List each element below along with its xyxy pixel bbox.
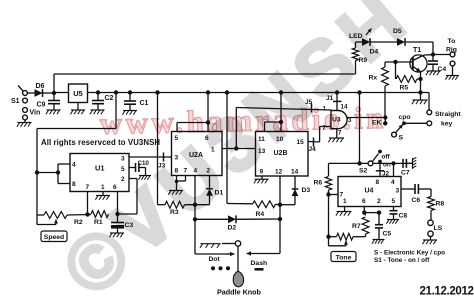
note S1 function bbox=[374, 257, 430, 264]
wire U1 pin2 jog bbox=[129, 179, 137, 215]
wire R2 to R1 node bbox=[67, 212, 91, 216]
svg-text:www.hamradio.in: www.hamradio.in bbox=[99, 100, 387, 141]
resistor R7 bbox=[352, 213, 369, 237]
wire bus to U2A pins 5-6 bbox=[177, 90, 210, 131]
wire bus rail through pin1 row bbox=[225, 90, 253, 204]
svg-text:Rig: Rig bbox=[446, 47, 457, 54]
diode D2 bbox=[195, 215, 280, 231]
svg-text:Dot: Dot bbox=[209, 256, 221, 263]
svg-text:Dash: Dash bbox=[251, 260, 268, 267]
terminal LS tip bbox=[428, 220, 443, 232]
resistor R9 bbox=[352, 42, 367, 74]
svg-text:cpo: cpo bbox=[399, 114, 411, 121]
label Tone bbox=[331, 252, 356, 262]
svg-text:LS: LS bbox=[434, 225, 443, 232]
resistor R4 bbox=[253, 201, 276, 218]
wire D6 to node bbox=[43, 92, 55, 94]
wire U3 out to EK bbox=[347, 118, 385, 120]
svg-text:S: S bbox=[399, 135, 404, 142]
svg-text:D6: D6 bbox=[36, 83, 45, 90]
ground under C9 bbox=[46, 110, 61, 114]
svg-text:S - Electronic Key / cpo: S - Electronic Key / cpo bbox=[374, 250, 445, 257]
text all rights bbox=[41, 138, 160, 147]
svg-text:T1: T1 bbox=[413, 47, 421, 54]
label Dot bbox=[209, 256, 231, 270]
regulator U5 bbox=[69, 84, 88, 103]
diode D3 bbox=[280, 176, 310, 205]
wire emitter down bbox=[418, 72, 422, 95]
wire U2A pin1 to U2B pin13 bbox=[222, 146, 256, 150]
LED D4 bbox=[349, 29, 378, 56]
resistor R5 bbox=[396, 62, 423, 92]
gate U3 bbox=[323, 104, 353, 137]
diode D5 bbox=[393, 28, 405, 46]
ground under C10 bbox=[138, 176, 151, 180]
svg-text:C5: C5 bbox=[383, 231, 392, 238]
svg-text:S2: S2 bbox=[359, 168, 368, 175]
IC U1 bbox=[70, 154, 129, 192]
svg-text:S1 - Tone - on / off: S1 - Tone - on / off bbox=[374, 257, 430, 264]
resistor R3 bbox=[158, 201, 185, 216]
capacitor C9 bbox=[37, 93, 61, 110]
svg-text:6: 6 bbox=[362, 198, 366, 205]
wire C6 to R8 bbox=[418, 189, 431, 197]
terminal straight key tip bbox=[427, 110, 462, 128]
potentiometer tone bbox=[329, 233, 354, 240]
wire S1 to D6 bbox=[28, 92, 35, 94]
capacitor C5 bbox=[375, 213, 391, 239]
wiper of tone pot bbox=[329, 237, 349, 246]
svg-text:8: 8 bbox=[72, 181, 76, 188]
wire pin4 rail down bbox=[193, 205, 229, 254]
switch S lever bbox=[395, 114, 410, 133]
svg-text:U4: U4 bbox=[365, 188, 374, 195]
svg-text:12: 12 bbox=[275, 169, 283, 176]
wire R4 to node bbox=[276, 203, 281, 205]
IC U2B bbox=[256, 132, 309, 177]
wire collector to rig jack bbox=[433, 54, 450, 56]
ground on bus right bbox=[412, 93, 428, 105]
capacitor C1 bbox=[124, 90, 149, 110]
node R1 C3 bbox=[115, 212, 119, 216]
wire D4 to D5 bbox=[370, 41, 397, 43]
svg-text:4: 4 bbox=[391, 179, 395, 186]
svg-text:S1: S1 bbox=[11, 98, 20, 105]
ground under U2A bbox=[168, 191, 183, 195]
svg-text:U1: U1 bbox=[95, 164, 105, 173]
capacitor C3 electrolytic bbox=[111, 214, 133, 233]
wire J4 up to U3 pin2 bbox=[320, 127, 331, 143]
svg-text:C8: C8 bbox=[399, 213, 408, 220]
svg-text:3: 3 bbox=[396, 188, 400, 195]
paddle pivot bbox=[235, 241, 240, 246]
label Paddle Knob bbox=[217, 288, 262, 297]
ground right of C7 bbox=[406, 157, 416, 169]
svg-text:R7: R7 bbox=[352, 223, 361, 230]
svg-text:D2: D2 bbox=[228, 225, 237, 232]
ground under S1 bbox=[17, 120, 32, 127]
resistor R6 bbox=[314, 176, 332, 196]
svg-text:Vin: Vin bbox=[30, 110, 41, 117]
wire pot rail node bbox=[326, 195, 330, 239]
svg-text:D3: D3 bbox=[302, 187, 311, 194]
ground under C3 bbox=[109, 233, 124, 237]
svg-text:7: 7 bbox=[86, 184, 90, 191]
wire bus to J1 bbox=[326, 90, 339, 110]
capacitor C6 bbox=[412, 184, 421, 204]
svg-text:To: To bbox=[448, 38, 456, 45]
wire U2B pin15 to J4 bbox=[308, 141, 320, 144]
ground under U4 pin1 bbox=[336, 207, 352, 216]
resistor R8 bbox=[428, 197, 445, 221]
node U1 supply tap bbox=[35, 170, 39, 174]
svg-text:R5: R5 bbox=[400, 85, 409, 92]
paddle stem bbox=[237, 246, 239, 271]
ground under C2 bbox=[90, 110, 105, 114]
terminal straight key ring bbox=[404, 121, 432, 126]
date bbox=[420, 286, 474, 298]
node U4 pin4 riser bbox=[391, 161, 395, 176]
capacitor C7 bbox=[401, 159, 410, 177]
arrow dash contact bbox=[247, 251, 281, 256]
jack J4 bbox=[309, 138, 317, 154]
svg-text:5: 5 bbox=[392, 198, 396, 205]
capacitor C4 bbox=[428, 55, 446, 74]
wire tone row bbox=[329, 162, 414, 164]
svg-text:R6: R6 bbox=[314, 180, 323, 187]
svg-text:C6: C6 bbox=[412, 197, 421, 204]
svg-text:Tone: Tone bbox=[336, 255, 352, 262]
wire D5 to collector node bbox=[405, 42, 435, 57]
wire R9 to LED bbox=[356, 41, 363, 43]
watermark grey VU3NSH bbox=[47, 0, 426, 298]
wire to U1 pins 4-8 bbox=[37, 164, 70, 184]
wire bus to U2B pins 11-10 bbox=[265, 90, 284, 131]
svg-text:14: 14 bbox=[291, 169, 299, 176]
node EK bbox=[372, 115, 387, 126]
ground under C4 bbox=[426, 71, 441, 75]
wire U4 pin6 pin2 join bbox=[362, 207, 381, 215]
wire rail to R2 bbox=[37, 214, 44, 216]
svg-text:R4: R4 bbox=[256, 211, 265, 218]
wire U1 pin7 down bbox=[87, 192, 89, 215]
svg-text:1: 1 bbox=[101, 184, 105, 191]
wire node to pin2 rail bbox=[118, 213, 138, 215]
svg-text:key: key bbox=[441, 121, 453, 128]
wiper of R2 bbox=[37, 215, 58, 225]
terminal LS sleeve bbox=[422, 231, 437, 244]
resistor Rx bbox=[369, 62, 389, 116]
svg-text:8: 8 bbox=[376, 179, 380, 186]
svg-text:J4: J4 bbox=[309, 146, 317, 153]
wire J5 riser bbox=[236, 108, 331, 149]
ground under U1 pin1 bbox=[95, 192, 110, 200]
wire node up to top rail bbox=[53, 74, 55, 93]
wire top rail bbox=[54, 73, 356, 75]
svg-text:2: 2 bbox=[377, 198, 381, 205]
wire U3 pin7 ground bbox=[328, 129, 344, 143]
wire U2B pin12 rail bbox=[278, 176, 282, 254]
watermark red hamradio bbox=[99, 100, 387, 141]
svg-text:1: 1 bbox=[343, 198, 347, 205]
terminal To Rig sleeve bbox=[445, 61, 459, 80]
terminal To Rig tip bbox=[446, 38, 457, 57]
ground under U5 bbox=[70, 103, 85, 115]
wire R6 to U4 pin7 bbox=[329, 194, 339, 196]
resistor R1 bbox=[91, 211, 109, 226]
jack J3 bbox=[158, 153, 166, 170]
node V-in bbox=[52, 91, 56, 95]
IC U4 bbox=[338, 177, 401, 207]
svg-text:C7: C7 bbox=[401, 170, 410, 177]
wire R7 to pot bbox=[353, 236, 366, 238]
ground under C8 bbox=[386, 220, 399, 224]
capacitor C2 bbox=[92, 90, 114, 109]
ground under U2B pin9 bbox=[254, 176, 269, 183]
wire U1 pin3 to J3 bbox=[129, 156, 172, 158]
svg-text:R8: R8 bbox=[436, 201, 445, 208]
svg-text:21.12.2012: 21.12.2012 bbox=[420, 286, 474, 298]
switch S1 bbox=[11, 86, 40, 120]
wire U1 pin5 to C10 bbox=[129, 167, 136, 169]
wire R6 top hook bbox=[328, 163, 330, 176]
switch S pole bbox=[392, 132, 404, 141]
ground under C1 bbox=[122, 111, 137, 115]
diode D1 bbox=[206, 176, 223, 205]
svg-text:5: 5 bbox=[121, 166, 125, 173]
potentiometer R2 bbox=[44, 212, 83, 226]
wire U2A pins 8-7 join bbox=[175, 176, 186, 191]
transistor T1 bbox=[410, 47, 433, 72]
paddle knob bbox=[233, 271, 243, 287]
svg-text:Paddle Knob: Paddle Knob bbox=[217, 288, 262, 297]
wire U4 pin3 to C6 bbox=[401, 188, 415, 190]
wire main supply bus bbox=[54, 92, 429, 94]
wire bus down-left feed bbox=[37, 90, 118, 215]
svg-text:3: 3 bbox=[121, 156, 125, 163]
jack J2 bbox=[376, 162, 390, 178]
wire base bbox=[385, 60, 413, 64]
jack J5 bbox=[305, 99, 313, 113]
svg-text:U5: U5 bbox=[73, 89, 83, 98]
svg-text:Straight: Straight bbox=[435, 111, 461, 118]
capacitor C8 bbox=[390, 207, 408, 220]
switch S2 bbox=[359, 150, 391, 175]
wire U1 pin6 down bbox=[117, 192, 119, 215]
ground under C5 bbox=[372, 240, 385, 244]
jack J1 bbox=[333, 100, 342, 102]
svg-text:off: off bbox=[382, 154, 391, 161]
IC U2A bbox=[172, 132, 223, 176]
wire U2A pin4 down bbox=[194, 176, 196, 205]
ground paddle pivot bbox=[200, 244, 235, 248]
wire bus rail to R3 bbox=[155, 90, 159, 202]
label Dash bbox=[251, 260, 268, 271]
label Speed bbox=[41, 231, 67, 242]
wire bus end to straight key bbox=[428, 93, 430, 111]
wire bus to S2 rail bbox=[357, 90, 361, 165]
svg-text:C9: C9 bbox=[37, 102, 46, 109]
capacitor C10 bbox=[136, 160, 150, 175]
wire R3 D1 row bbox=[185, 203, 210, 207]
arrow dot contact bbox=[227, 252, 235, 257]
diode D6 bbox=[35, 83, 45, 97]
svg-text:on: on bbox=[383, 162, 391, 169]
note S function bbox=[374, 250, 445, 257]
svg-text:C2: C2 bbox=[105, 95, 114, 102]
svg-text:4: 4 bbox=[72, 162, 76, 169]
